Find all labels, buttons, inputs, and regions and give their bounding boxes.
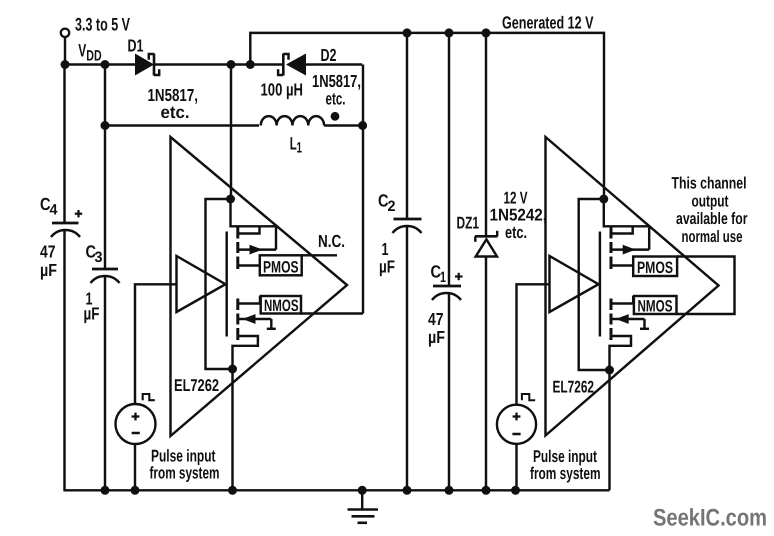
svg-text:output: output bbox=[692, 192, 729, 210]
svg-text:etc.: etc. bbox=[505, 223, 527, 242]
L1 phase dot bbox=[331, 112, 340, 121]
Q3 body lead with arrow bbox=[611, 245, 649, 255]
Q4 drain lead bbox=[611, 296, 633, 304]
node C1 bottom junction bbox=[445, 486, 454, 495]
wire U1 input bbox=[135, 284, 177, 405]
svg-text:from system: from system bbox=[530, 464, 601, 483]
wire D1 branch riser bbox=[230, 65, 232, 200]
svg-text:47: 47 bbox=[40, 242, 56, 262]
svg-text:3.3 to 5 V: 3.3 to 5 V bbox=[75, 15, 130, 35]
svg-text:available for: available for bbox=[676, 210, 748, 228]
svg-text:PMOS: PMOS bbox=[637, 259, 673, 277]
svg-text:µF: µF bbox=[84, 304, 100, 324]
svg-text:PMOS: PMOS bbox=[263, 259, 299, 277]
wire D1 to node bbox=[155, 63, 283, 65]
wire U2 top staircase bbox=[604, 199, 649, 250]
C4 plus sign bbox=[75, 210, 82, 217]
wire U1 gate rail bbox=[225, 232, 227, 337]
node VDD-C3 junction bbox=[101, 60, 110, 69]
wire U2 output bracket bbox=[677, 257, 735, 315]
svg-text:etc.: etc. bbox=[326, 89, 346, 109]
V1 minus sign bbox=[132, 432, 140, 435]
node C2 top junction bbox=[403, 28, 412, 37]
node U1 lower bias junction bbox=[228, 365, 237, 374]
op-amp U2 input buffer triangle bbox=[550, 256, 599, 312]
wire C1 rail upper bbox=[448, 33, 450, 286]
wire C2 rail lower bbox=[406, 227, 408, 491]
svg-text:This channel: This channel bbox=[672, 175, 747, 193]
wire bottom ground rail bbox=[63, 489, 609, 491]
node U2 lower bias junction bbox=[605, 366, 614, 375]
Q2 drain lead bbox=[238, 296, 260, 304]
transistor Q2 NMOS channel bbox=[236, 299, 239, 341]
V2 pulse glyph bbox=[522, 394, 535, 400]
svg-text:100 µH: 100 µH bbox=[261, 80, 304, 100]
node pulse1 bottom junction bbox=[131, 486, 140, 495]
wire generated-12V riser bbox=[250, 33, 604, 199]
wire U1 top staircase bbox=[231, 199, 277, 250]
node switch junction bbox=[358, 121, 367, 130]
node ground junction bbox=[358, 486, 367, 495]
PMOS label box U2 bbox=[633, 257, 677, 277]
svg-text:NMOS: NMOS bbox=[638, 298, 673, 316]
node D1 cathode junction bbox=[227, 60, 236, 69]
capacitor C1 bbox=[432, 286, 461, 300]
Q3 source lead bbox=[611, 226, 633, 233]
wire U2 input bbox=[517, 284, 550, 405]
svg-text:N.C.: N.C. bbox=[318, 231, 345, 251]
Q4 source lead bbox=[610, 336, 632, 370]
wire D2 anode to switch column bbox=[306, 63, 362, 65]
wire switch node column bbox=[362, 65, 364, 314]
node driver1 bottom junction bbox=[228, 486, 237, 495]
wire left rail lower bbox=[63, 231, 65, 491]
input terminal 3.3-5V bbox=[61, 29, 69, 37]
node pulse2 bottom junction bbox=[511, 486, 520, 495]
wire V1 to ground rail bbox=[134, 444, 136, 490]
Q4 body lead with arrow bbox=[611, 314, 649, 329]
wire U1 bottom return bbox=[231, 369, 233, 490]
diode D2 bbox=[278, 54, 306, 76]
wire C1 rail lower bbox=[448, 294, 450, 491]
wire N.C. stub bbox=[302, 254, 337, 256]
wire V2 to ground rail bbox=[515, 444, 517, 490]
svg-text:EL7262: EL7262 bbox=[174, 376, 219, 395]
wire VDD rail top bbox=[65, 63, 136, 65]
capacitor C4 bbox=[51, 223, 80, 237]
node U2 supply junction bbox=[599, 195, 608, 204]
node C3 bottom junction bbox=[101, 486, 110, 495]
svg-text:2: 2 bbox=[388, 198, 396, 215]
svg-text:NMOS: NMOS bbox=[264, 297, 299, 315]
svg-text:DD: DD bbox=[86, 48, 102, 65]
capacitor C2 bbox=[393, 219, 422, 233]
transistor Q1 PMOS channel bbox=[236, 227, 239, 269]
node C1 top junction bbox=[445, 28, 454, 37]
wire U1 output to switch node bbox=[301, 312, 363, 314]
svg-text:3: 3 bbox=[95, 249, 103, 266]
U1 supply rail stub with dot bbox=[226, 195, 235, 204]
Q1 body lead with arrow bbox=[238, 248, 276, 250]
wire U2 bottom return bbox=[608, 370, 610, 490]
PMOS label box U1 bbox=[260, 255, 302, 275]
svg-text:D2: D2 bbox=[321, 45, 337, 65]
svg-text:µF: µF bbox=[40, 260, 57, 280]
pulse source V1 bbox=[116, 404, 156, 444]
ground symbol bbox=[348, 490, 379, 523]
svg-text:SeekIC.com: SeekIC.com bbox=[653, 505, 767, 532]
node C2 bottom junction bbox=[403, 486, 412, 495]
svg-text:µF: µF bbox=[428, 327, 445, 347]
transistor Q3 PMOS channel bbox=[610, 227, 613, 269]
NMOS label box U2 bbox=[634, 296, 677, 314]
wire U2 gate rail bbox=[599, 232, 601, 337]
svg-text:Generated 12 V: Generated 12 V bbox=[502, 13, 594, 33]
node DZ1 bottom junction bbox=[482, 486, 491, 495]
svg-text:etc.: etc. bbox=[161, 102, 190, 122]
V2 minus sign bbox=[512, 433, 520, 436]
svg-text:D1: D1 bbox=[128, 35, 144, 55]
svg-text:V: V bbox=[78, 41, 86, 61]
wire U1 left bias rail bbox=[206, 199, 233, 369]
wire left rail upper bbox=[63, 65, 65, 224]
svg-text:from system: from system bbox=[150, 463, 220, 482]
svg-text:EL7262: EL7262 bbox=[553, 378, 595, 397]
Q3 drain lead bbox=[611, 264, 633, 266]
node VDD-terminal junction bbox=[61, 60, 70, 69]
C1 plus sign bbox=[455, 273, 463, 280]
Q2 source lead bbox=[233, 336, 258, 369]
zener DZ1 bbox=[475, 33, 498, 490]
op-amp U1 input buffer triangle bbox=[177, 256, 226, 312]
node 12V rail tap junction bbox=[246, 60, 255, 69]
svg-text:DZ1: DZ1 bbox=[457, 214, 480, 233]
transistor Q4 NMOS channel bbox=[610, 299, 613, 341]
Q1 source lead bbox=[238, 226, 260, 233]
svg-text:1: 1 bbox=[440, 269, 446, 286]
wire C2 rail upper bbox=[406, 33, 408, 219]
diode D1 bbox=[135, 54, 159, 76]
svg-text:µF: µF bbox=[379, 257, 395, 277]
node DZ1 top junction bbox=[482, 28, 491, 37]
node L1 tap junction bbox=[101, 121, 110, 130]
NMOS label box U1 bbox=[261, 296, 301, 314]
wire U2 left bias rail bbox=[579, 199, 610, 370]
wire L1 feed bbox=[105, 124, 259, 126]
svg-text:47: 47 bbox=[428, 309, 444, 329]
pulse source V2 bbox=[497, 405, 536, 444]
V1 pulse glyph bbox=[143, 394, 155, 400]
svg-text:1: 1 bbox=[297, 140, 303, 157]
op-amp U1 EL7262 driver triangle bbox=[171, 137, 348, 436]
wire C3 rail lower bbox=[104, 277, 106, 491]
wire C3 rail upper bbox=[104, 65, 106, 270]
inductor L1 bbox=[261, 116, 324, 125]
Q1 drain lead bbox=[238, 264, 260, 266]
wire terminal stub bbox=[64, 37, 66, 64]
V1 plus sign bbox=[132, 413, 140, 421]
V2 plus sign bbox=[513, 413, 521, 421]
svg-text:normal use: normal use bbox=[682, 228, 743, 246]
capacitor C3 bbox=[91, 269, 120, 283]
wire L1 to switch node bbox=[324, 124, 362, 126]
op-amp U2 EL7262 driver triangle bbox=[546, 137, 719, 436]
svg-text:4: 4 bbox=[50, 202, 59, 219]
svg-text:1N5242,: 1N5242, bbox=[490, 206, 548, 225]
Q2 body lead with arrow bbox=[238, 314, 276, 329]
